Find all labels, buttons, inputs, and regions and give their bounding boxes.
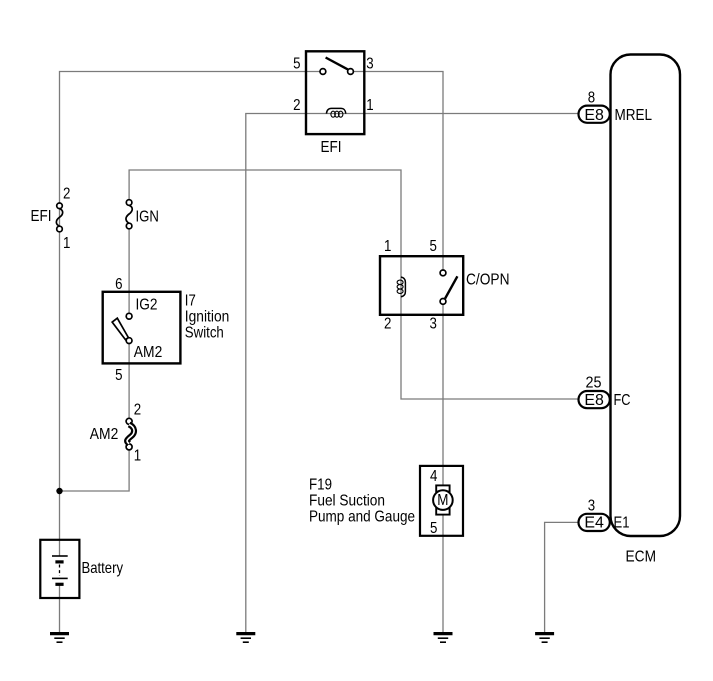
wire IGN rail to C/OPN pin1 [129, 170, 401, 256]
wire EFI relay pin1 to ECM MREL [364, 113, 578, 115]
svg-text:3: 3 [588, 498, 595, 515]
motor brush cap bottom [436, 509, 449, 515]
svg-text:2: 2 [293, 97, 300, 114]
svg-text:AM2: AM2 [90, 426, 119, 443]
svg-text:IG2: IG2 [136, 297, 158, 314]
junction node battery/AM2 [56, 488, 62, 494]
svg-text:1: 1 [63, 235, 70, 252]
svg-text:E4: E4 [584, 515, 604, 532]
svg-text:IGN: IGN [136, 209, 159, 226]
svg-text:8: 8 [588, 90, 595, 107]
ignition switch lever [112, 318, 128, 339]
relay EFI box [306, 51, 364, 134]
wire C/OPN pin5 stub inside relay [442, 256, 444, 315]
svg-text:5: 5 [430, 238, 437, 255]
svg-text:1: 1 [366, 97, 373, 114]
wire C/OPN pin3 to fuel pump to ground [442, 315, 444, 633]
svg-text:2: 2 [63, 186, 70, 203]
svg-text:E1: E1 [614, 515, 630, 532]
wire AM2 fusible link to battery junction [60, 450, 130, 491]
svg-text:3: 3 [430, 316, 437, 333]
wire battery bottom to ground [59, 584, 61, 633]
ignition switch I7 box [103, 292, 181, 364]
svg-text:EFI: EFI [31, 208, 52, 225]
connector E8 MREL [579, 106, 610, 123]
svg-text:E8: E8 [584, 107, 604, 124]
svg-text:AM2: AM2 [134, 344, 163, 361]
svg-text:FC: FC [614, 392, 631, 409]
relay C/OPN coil [397, 277, 405, 297]
svg-text:ECM: ECM [626, 549, 657, 566]
svg-text:2: 2 [384, 316, 391, 333]
ground (ECM E1) [535, 634, 554, 643]
wire through EFI relay top row [306, 71, 364, 73]
wire IGN fuse to ignition switch IG2 [128, 226, 130, 313]
svg-text:4: 4 [430, 468, 437, 485]
wire battery/EFI-fuse vertical (x=59.5) top segment to top rail [60, 72, 307, 557]
svg-text:M: M [437, 492, 448, 509]
fuse IGN [126, 200, 132, 229]
svg-text:3: 3 [366, 56, 373, 73]
svg-text:MREL: MREL [615, 107, 653, 124]
ground (battery) [50, 634, 69, 643]
wire EFI relay pin2 to ground (x=245.8) [246, 114, 306, 634]
ignition switch AM2 contact [126, 338, 132, 344]
wire through EFI relay coil row [306, 113, 364, 115]
svg-text:Ignition: Ignition [185, 308, 230, 325]
ground (fuel pump) [434, 634, 453, 643]
relay EFI coil [326, 108, 345, 117]
motor M circle [433, 490, 453, 510]
fusible link AM2 [126, 418, 134, 450]
svg-text:25: 25 [586, 375, 602, 392]
svg-text:1: 1 [384, 238, 391, 255]
svg-text:5: 5 [430, 520, 437, 537]
battery plates [52, 556, 68, 584]
svg-text:Battery: Battery [82, 560, 124, 577]
fuel pump F19 box [420, 466, 463, 536]
ECM box [611, 55, 681, 537]
svg-text:Pump and Gauge: Pump and Gauge [309, 508, 415, 525]
svg-text:F19: F19 [309, 476, 332, 493]
fuse EFI [56, 203, 62, 232]
relay EFI switch contacts [320, 58, 353, 75]
svg-text:2: 2 [134, 402, 141, 419]
svg-text:C/OPN: C/OPN [466, 271, 510, 288]
ignition switch IG2 contact [126, 313, 132, 319]
ground (EFI relay pin2) [236, 634, 255, 643]
svg-text:E8: E8 [584, 392, 604, 409]
svg-text:EFI: EFI [321, 139, 342, 156]
svg-text:I7: I7 [185, 292, 196, 309]
svg-text:5: 5 [115, 367, 122, 384]
svg-text:1: 1 [134, 448, 141, 465]
svg-text:Switch: Switch [185, 324, 224, 341]
svg-text:5: 5 [293, 56, 300, 73]
svg-text:Fuel Suction: Fuel Suction [309, 492, 385, 509]
connector E4 E1 [579, 514, 610, 531]
connector E8 FC [579, 391, 610, 408]
wire EFI relay pin3 to C/OPN pin5 [364, 72, 443, 257]
relay C/OPN box [380, 256, 463, 315]
svg-text:6: 6 [115, 276, 122, 293]
wire C/OPN pin2 to ECM FC [401, 256, 579, 399]
motor brush cap top [436, 485, 449, 491]
wire ECM E4/E1 to ground [545, 522, 579, 633]
battery box [40, 540, 79, 598]
wire ignition switch AM2 to AM2 fusible link [128, 344, 130, 419]
relay C/OPN switch contacts [440, 270, 457, 304]
